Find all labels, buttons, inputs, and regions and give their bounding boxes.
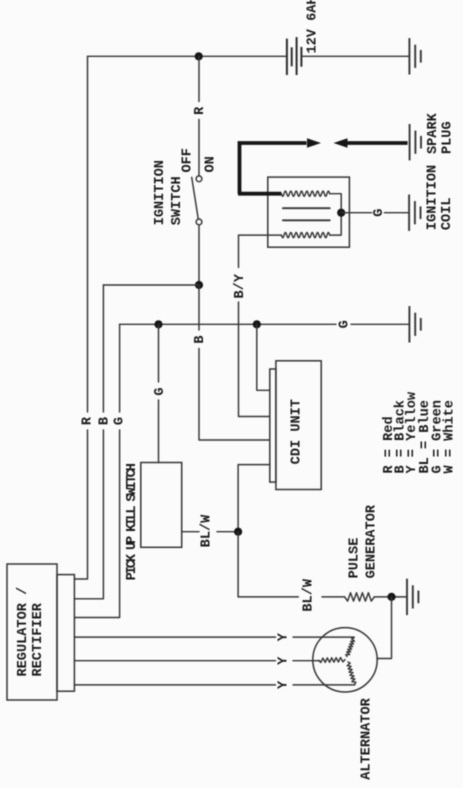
svg-text:SWITCH: SWITCH bbox=[170, 176, 185, 225]
regulator rectifier U2 box bbox=[7, 564, 57, 700]
wire bbox=[74, 430, 103, 599]
wire bbox=[217, 531, 238, 533]
node switch-bottom junction bbox=[195, 281, 203, 289]
wire B to CDI bbox=[199, 349, 270, 441]
ground G wire bbox=[409, 306, 420, 342]
wire coil primary to B/Y bbox=[239, 235, 282, 267]
svg-text:Y: Y bbox=[277, 680, 292, 689]
wire bbox=[74, 430, 119, 618]
wire bbox=[351, 323, 409, 325]
wire bbox=[385, 212, 409, 214]
svg-text:G: G bbox=[113, 417, 128, 425]
svg-text:B: B bbox=[193, 335, 208, 343]
svg-text:R: R bbox=[81, 416, 96, 425]
svg-text:BL/W: BL/W bbox=[200, 514, 215, 547]
node pulse generator junction bbox=[387, 593, 395, 601]
wire CDI pin4 BL/W bbox=[238, 465, 270, 528]
node G wire / CDI junction bbox=[253, 320, 261, 328]
wire Y phase 2 bbox=[74, 660, 275, 662]
wire G vertical bbox=[119, 324, 121, 412]
wire junction to B wire bbox=[103, 284, 199, 286]
svg-text:GENERATOR: GENERATOR bbox=[365, 504, 380, 578]
wire Y phase 1 bbox=[74, 636, 275, 638]
ground spark plug bbox=[410, 124, 421, 160]
wire B vertical bbox=[102, 285, 104, 412]
arrow spark gap left electrode bbox=[307, 138, 321, 148]
wire bbox=[198, 120, 200, 176]
CDI unit connector bbox=[270, 369, 276, 482]
pick up kill switch S2 box bbox=[141, 463, 182, 548]
wire kill switch feed bbox=[158, 324, 160, 382]
arrow spark gap right electrode bbox=[334, 138, 348, 148]
svg-text:REGULATOR /: REGULATOR / bbox=[16, 587, 31, 677]
svg-text:W = White: W = White bbox=[443, 400, 458, 473]
ground pulse generator bbox=[407, 579, 418, 615]
alternator winding arm lower bbox=[347, 662, 356, 684]
battery BAT1 12V 6AH bbox=[287, 37, 302, 75]
node BL/W junction bbox=[234, 528, 242, 536]
wire to junction bbox=[374, 596, 406, 598]
node coil common terminal bbox=[337, 209, 345, 217]
alternator winding arm left bbox=[319, 658, 346, 663]
svg-text:PULSE: PULSE bbox=[348, 538, 363, 579]
wire secondary HT lead (thick) bbox=[240, 143, 307, 194]
regulator rectifier U2 connector bbox=[57, 575, 74, 692]
svg-text:Y: Y bbox=[277, 656, 292, 665]
svg-text:PICK UP KILL SWITCH: PICK UP KILL SWITCH bbox=[125, 463, 140, 580]
wire bbox=[293, 636, 354, 638]
svg-text:12V 6AH: 12V 6AH bbox=[306, 0, 321, 54]
wire kill switch to BL/W node bbox=[182, 531, 199, 533]
ignition coil T1 box bbox=[268, 177, 350, 247]
svg-text:ALTERNATOR: ALTERNATOR bbox=[360, 697, 375, 779]
svg-text:PLUG: PLUG bbox=[440, 121, 455, 154]
wire coil common to ground (G) bbox=[341, 212, 371, 214]
wire Y phase 3 bbox=[74, 684, 275, 686]
wire B/Y down to CDI bbox=[239, 302, 270, 417]
wire primary to common node bbox=[330, 213, 342, 235]
switch S1 ignition switch bbox=[196, 176, 202, 182]
svg-text:COIL: COIL bbox=[440, 197, 455, 230]
svg-text:G: G bbox=[153, 387, 168, 395]
wire junction to CDI pin1 bbox=[257, 324, 270, 390]
coil secondary winding bbox=[281, 191, 329, 196]
wire battery to ground bbox=[301, 55, 408, 57]
alternator winding arm upper bbox=[346, 638, 355, 657]
alternator G1 circle bbox=[313, 628, 377, 692]
svg-text:IGNITION: IGNITION bbox=[153, 160, 168, 225]
wire BL/W down to pulse generator bbox=[238, 532, 298, 597]
ground battery bbox=[409, 38, 420, 74]
wire R vertical bbox=[87, 56, 89, 412]
svg-text:OFF: OFF bbox=[181, 148, 196, 172]
wire bbox=[74, 430, 87, 579]
svg-text:RECTIFIER: RECTIFIER bbox=[31, 602, 46, 676]
wire junction down to alternator bbox=[377, 597, 392, 659]
svg-text:BL/W: BL/W bbox=[301, 578, 316, 611]
wire B from switch junction down bbox=[198, 285, 200, 330]
wire top horizontal from R wire to battery bbox=[88, 55, 287, 57]
ground ignition coil bbox=[409, 195, 420, 231]
svg-text:Y: Y bbox=[277, 632, 292, 641]
wire bbox=[293, 660, 320, 662]
wire bbox=[158, 400, 160, 463]
node G wire / kill switch junction bbox=[154, 320, 162, 328]
wire ignition switch feed (R) bbox=[198, 56, 200, 101]
wire long G horizontal bbox=[120, 323, 336, 325]
svg-text:R: R bbox=[193, 106, 208, 115]
svg-text:CDI UNIT: CDI UNIT bbox=[290, 399, 305, 464]
svg-text:IGNITION: IGNITION bbox=[426, 165, 441, 230]
svg-text:B: B bbox=[98, 417, 113, 425]
wire thick into secondary winding bbox=[238, 192, 281, 196]
svg-text:SPARK: SPARK bbox=[426, 112, 441, 154]
pulse generator coil (resistor zigzag) bbox=[345, 593, 375, 601]
CDI unit U1 box bbox=[276, 361, 321, 490]
svg-text:ON: ON bbox=[204, 156, 219, 172]
svg-text:B/Y: B/Y bbox=[233, 273, 248, 298]
coil primary winding bbox=[281, 233, 329, 238]
coil core lines bbox=[283, 207, 330, 209]
wire switch to junction bbox=[198, 225, 200, 285]
node top junction at ignition switch wire bbox=[195, 52, 203, 60]
wire bbox=[322, 596, 345, 598]
wire spark plug to ground (thick) bbox=[347, 141, 408, 145]
wire secondary to common node bbox=[330, 194, 342, 213]
wire bbox=[293, 684, 355, 686]
